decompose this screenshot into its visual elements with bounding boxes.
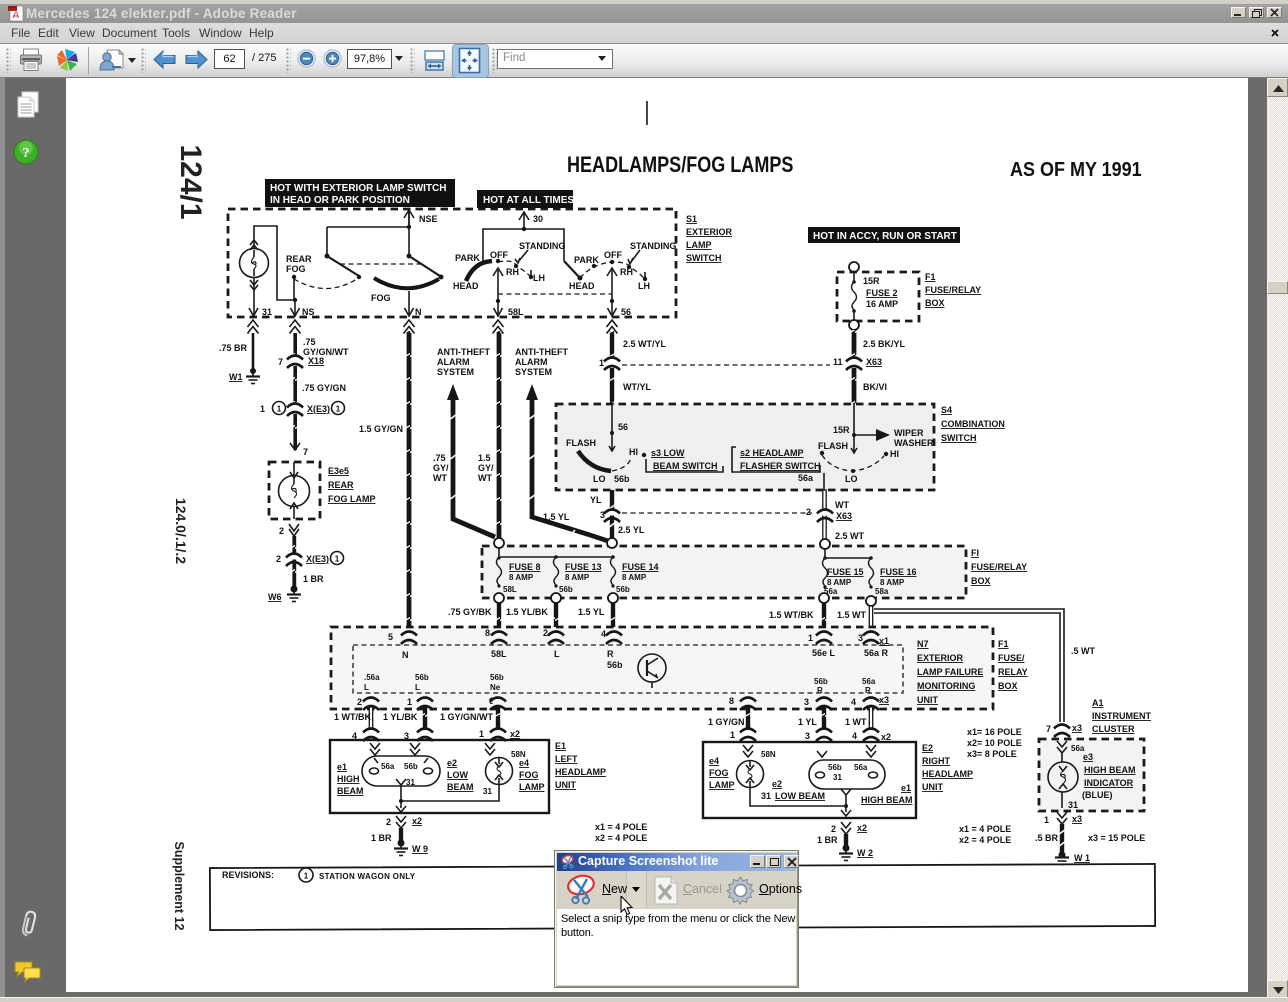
svg-text:3: 3 (805, 731, 810, 741)
E2 label (922, 743, 973, 792)
svg-text:1 WT: 1 WT (845, 717, 867, 727)
e3 label (1082, 752, 1136, 800)
svg-text:x2: x2 (510, 729, 520, 739)
svg-text:1 GY/GN/WT: 1 GY/GN/WT (440, 712, 494, 722)
E1 high/low beam stadium (362, 756, 440, 787)
connector 1 x3 (1044, 812, 1082, 825)
svg-text:1: 1 (304, 872, 309, 881)
svg-text:EXTERIOR: EXTERIOR (917, 653, 964, 663)
svg-text:A1: A1 (1092, 698, 1104, 708)
svg-text:15R: 15R (833, 425, 850, 435)
svg-text:e2: e2 (772, 779, 782, 789)
svg-text:1.5: 1.5 (478, 453, 491, 463)
connector row above E2 (730, 729, 756, 742)
fuse bus right (823, 549, 873, 560)
node NS (291, 298, 315, 317)
E1 fog lamp circle (483, 750, 526, 796)
svg-text:HIGH: HIGH (337, 774, 360, 784)
ground W1 right (1055, 852, 1090, 865)
wire BK/VI (852, 368, 887, 405)
svg-text:W6: W6 (268, 592, 282, 602)
svg-text:e2: e2 (447, 758, 457, 768)
svg-text:2: 2 (806, 507, 811, 517)
svg-text:7: 7 (303, 447, 308, 457)
FOG wiper arc (371, 278, 439, 303)
pinwheel icon (55, 48, 80, 72)
hot label box 2 (477, 190, 574, 208)
wire .75 BR (219, 333, 253, 372)
svg-text:56: 56 (618, 422, 628, 432)
svg-text:x2: x2 (857, 823, 867, 833)
S4 left: 56 node (609, 404, 628, 451)
svg-text:FOG: FOG (709, 768, 729, 778)
svg-text:LH: LH (638, 281, 650, 291)
svg-text:.75 GY/GN: .75 GY/GN (302, 383, 346, 393)
svg-text:58L: 58L (491, 649, 507, 659)
svg-text:FLASH: FLASH (818, 441, 848, 451)
circle below F1 (849, 320, 859, 330)
svg-text:.56a: .56a (364, 673, 380, 682)
fuse FUSE 16 (869, 558, 917, 596)
svg-text:1 YL/BK: 1 YL/BK (383, 712, 418, 722)
wire 1 BR to W6 (292, 536, 296, 592)
svg-text:LEFT: LEFT (555, 754, 578, 764)
window top border (0, 0, 1288, 4)
revisions box (210, 864, 1155, 930)
svg-text:e4: e4 (709, 756, 719, 766)
combination switch S4 box (556, 404, 934, 490)
svg-text:56e L: 56e L (812, 648, 836, 658)
svg-text:2.5 WT: 2.5 WT (835, 531, 865, 541)
svg-text:F1: F1 (998, 639, 1009, 649)
svg-text:FUSE 13: FUSE 13 (565, 562, 602, 572)
rotary link dashed (498, 293, 612, 295)
svg-text:31: 31 (483, 787, 492, 796)
transistor in N7 (638, 654, 666, 688)
svg-text:X(E3): X(E3) (307, 404, 330, 414)
svg-text:UNIT: UNIT (555, 780, 576, 790)
svg-text:L: L (364, 683, 369, 692)
dashed link to X63 (622, 364, 830, 366)
svg-text:MONITORING: MONITORING (917, 681, 975, 691)
E1 entry chevrons (370, 743, 495, 755)
dashed link y513 (622, 512, 812, 514)
svg-text:INDICATOR: INDICATOR (1084, 778, 1134, 788)
svg-text:2: 2 (831, 824, 836, 834)
svg-text:OFF: OFF (490, 250, 508, 260)
svg-text:WT/YL: WT/YL (623, 382, 651, 392)
A1 instrument cluster label (1092, 698, 1151, 734)
svg-text:1: 1 (336, 405, 341, 414)
svg-text:58L: 58L (503, 585, 517, 594)
svg-text:1.5 GY/GN: 1.5 GY/GN (359, 424, 403, 434)
wire .5 WT branch to A1 (874, 609, 1096, 722)
svg-text:FOG LAMP: FOG LAMP (328, 494, 376, 504)
svg-text:UNIT: UNIT (922, 782, 943, 792)
svg-text:1.5 YL: 1.5 YL (543, 512, 570, 522)
svg-text:4: 4 (601, 629, 606, 639)
svg-text:1 BR: 1 BR (817, 835, 838, 845)
svg-text:INSTRUMENT: INSTRUMENT (1092, 711, 1151, 721)
svg-text:1: 1 (730, 730, 735, 740)
E1 internal junction (396, 785, 499, 812)
svg-text:1 GY/GN: 1 GY/GN (708, 717, 745, 727)
svg-text:?: ? (23, 146, 30, 161)
svg-text:8: 8 (485, 628, 490, 638)
svg-text:FI: FI (971, 548, 979, 558)
svg-text:s3 LOW: s3 LOW (651, 448, 685, 458)
fuse FUSE 15 (823, 558, 864, 596)
wire .75 GY/GN (293, 366, 346, 402)
svg-text:7: 7 (1046, 724, 1051, 734)
svg-text:WT: WT (478, 473, 492, 483)
wire 1.5 YL/BK (506, 603, 558, 633)
svg-text:BEAM: BEAM (337, 786, 364, 796)
svg-text:E2: E2 (922, 743, 933, 753)
svg-text:R: R (817, 686, 823, 695)
connector X(E3) upper (260, 402, 345, 417)
svg-text:56a: 56a (854, 763, 868, 772)
svg-text:16 AMP: 16 AMP (866, 299, 898, 309)
anti-theft arrow 1 (433, 347, 495, 537)
svg-text:NS: NS (302, 307, 315, 317)
svg-text:2: 2 (543, 628, 548, 638)
fuse FUSE 8 (497, 556, 541, 594)
E2 fog lamp circle (737, 750, 776, 788)
svg-text:L: L (415, 683, 420, 692)
rear fog switch (286, 254, 361, 300)
connector 3 (600, 510, 645, 536)
hot label box 3 (808, 227, 960, 243)
svg-text:s2 HEADLAMP: s2 HEADLAMP (740, 448, 804, 458)
svg-text:56b: 56b (559, 585, 573, 594)
pole note left (595, 822, 647, 843)
svg-text:Ne: Ne (490, 683, 501, 692)
svg-text:FUSE/: FUSE/ (998, 653, 1025, 663)
svg-text:ANTI-THEFT: ANTI-THEFT (437, 347, 490, 357)
svg-text:e4: e4 (519, 758, 529, 768)
svg-text:UNIT: UNIT (917, 695, 938, 705)
svg-text:ALARM: ALARM (515, 357, 548, 367)
svg-text:BOX: BOX (925, 298, 945, 308)
svg-text:11: 11 (833, 357, 843, 367)
svg-text:1: 1 (479, 729, 484, 739)
pole note right (959, 824, 1011, 845)
fit width icon (424, 50, 445, 71)
svg-text:OFF: OFF (604, 250, 622, 260)
N7 label (917, 639, 983, 705)
svg-text:LAMP: LAMP (519, 782, 545, 792)
svg-text:LO: LO (593, 474, 606, 484)
svg-text:.75: .75 (303, 337, 316, 347)
svg-text:56b: 56b (607, 660, 623, 670)
svg-text:HOT WITH EXTERIOR LAMP SWITCH: HOT WITH EXTERIOR LAMP SWITCH (270, 183, 446, 194)
wires N7 to E1 (334, 707, 373, 732)
svg-text:2.5 YL: 2.5 YL (618, 525, 645, 535)
fog switch arm left (325, 227, 410, 276)
E1 label (555, 741, 606, 790)
svg-text:7: 7 (278, 357, 283, 367)
svg-text:56b: 56b (415, 673, 429, 682)
svg-text:x2: x2 (881, 732, 891, 742)
wire lamp top loop (254, 226, 295, 300)
toolbar (0, 44, 1288, 78)
svg-text:ANTI-THEFT: ANTI-THEFT (515, 347, 568, 357)
svg-text:FUSE 14: FUSE 14 (622, 562, 659, 572)
node N (405, 291, 422, 317)
svg-text:FOG: FOG (371, 293, 391, 303)
svg-text:LAMP FAILURE: LAMP FAILURE (917, 667, 983, 677)
svg-text:58a: 58a (875, 587, 889, 596)
connector row above E1 (352, 729, 379, 742)
svg-text:R: R (865, 686, 871, 695)
svg-text:CLUSTER: CLUSTER (1092, 724, 1135, 734)
S4 label (941, 405, 1005, 443)
sign/person icon (99, 48, 125, 72)
lamp E3e5 (279, 462, 310, 519)
svg-text:1: 1 (260, 404, 265, 414)
svg-text:N: N (402, 650, 409, 660)
svg-text:RH: RH (620, 267, 633, 277)
svg-text:31: 31 (1068, 800, 1078, 810)
zoom out (297, 49, 316, 68)
svg-text:STATION WAGON ONLY: STATION WAGON ONLY (319, 872, 416, 881)
wire lamp to 31 (249, 278, 272, 317)
svg-text:HI: HI (629, 447, 638, 457)
connector X(E3) lower (276, 552, 344, 567)
svg-text:FOG: FOG (519, 770, 539, 780)
connector X63 (11) (833, 357, 882, 370)
svg-text:WASHER: WASHER (894, 438, 934, 448)
svg-text:FLASH: FLASH (566, 438, 596, 448)
help icon (13, 139, 39, 165)
svg-text:SYSTEM: SYSTEM (515, 367, 552, 377)
svg-text:BEAM: BEAM (447, 782, 474, 792)
svg-text:X(E3): X(E3) (306, 554, 329, 564)
svg-text:WT: WT (835, 500, 849, 510)
svg-text:X63: X63 (836, 511, 852, 521)
svg-text:15R: 15R (863, 276, 880, 286)
svg-text:1.5 YL/BK: 1.5 YL/BK (506, 607, 548, 617)
svg-text:GY/: GY/ (433, 463, 449, 473)
svg-text:SWITCH: SWITCH (941, 433, 977, 443)
svg-text:YL: YL (590, 495, 602, 505)
svg-text:56: 56 (621, 307, 631, 317)
node NSE (404, 210, 438, 226)
svg-text:.5 BR: .5 BR (1035, 833, 1059, 843)
svg-text:HIGH BEAM: HIGH BEAM (1084, 765, 1136, 775)
svg-text:W 2: W 2 (857, 848, 873, 858)
back arrow (153, 50, 176, 69)
connector 1 (to S4) (599, 358, 620, 371)
svg-text:2: 2 (357, 697, 362, 707)
svg-text:1 BR: 1 BR (371, 833, 392, 843)
printer icon (19, 48, 43, 72)
svg-text:WT: WT (433, 473, 447, 483)
svg-text:E3e5: E3e5 (328, 466, 349, 476)
svg-text:3: 3 (804, 697, 809, 707)
svg-text:124/1: 124/1 (174, 144, 207, 219)
svg-text:x3: x3 (879, 695, 889, 705)
svg-text:LH: LH (533, 273, 545, 283)
S4 right: 15R wiper washer (833, 404, 934, 453)
comments icon (12, 959, 42, 985)
lamp symbol in S1 (240, 240, 269, 290)
svg-text:PARK: PARK (455, 253, 480, 263)
svg-text:HI: HI (890, 449, 899, 459)
svg-text:S4: S4 (941, 405, 952, 415)
trunk N 1.5 GY/GN (359, 331, 411, 637)
svg-text:SYSTEM: SYSTEM (437, 367, 474, 377)
svg-text:(BLUE): (BLUE) (1082, 790, 1113, 800)
svg-text:HEADLAMP: HEADLAMP (555, 767, 606, 777)
svg-text:8 AMP: 8 AMP (565, 573, 590, 582)
svg-text:RIGHT: RIGHT (922, 756, 951, 766)
wire 1.5 WT/BK (769, 603, 826, 633)
wire 56 / 2.5 WT/YL (610, 331, 667, 358)
svg-text:56a: 56a (798, 473, 814, 483)
N7 inner top labels (402, 648, 889, 670)
svg-text:.75: .75 (433, 453, 446, 463)
E2 entry chevrons (743, 745, 876, 757)
svg-text:Supplement 12: Supplement 12 (172, 842, 186, 931)
svg-text:BOX: BOX (971, 576, 991, 586)
S1 label (686, 214, 733, 263)
svg-text:L: L (554, 649, 560, 659)
ground W6 (268, 586, 301, 603)
svg-text:30: 30 (533, 214, 543, 224)
svg-text:8: 8 (729, 696, 734, 706)
flash arc right (798, 441, 899, 490)
menu bar (0, 23, 1288, 44)
wire YL below S4 (590, 490, 616, 542)
svg-text:1: 1 (335, 555, 340, 564)
wire to E3e5 (290, 414, 308, 457)
cancel (disabled) (651, 876, 679, 905)
N7 top pins (388, 632, 417, 645)
svg-text:124.0/.1/.2: 124.0/.1/.2 (173, 498, 189, 564)
svg-text:x1: x1 (879, 636, 889, 646)
svg-text:56a: 56a (862, 677, 876, 686)
svg-text:HIGH BEAM: HIGH BEAM (861, 795, 913, 805)
svg-text:1: 1 (407, 697, 412, 707)
svg-text:GY/: GY/ (478, 463, 494, 473)
headlamp unit E2 box (703, 742, 916, 818)
svg-text:LOW BEAM: LOW BEAM (775, 791, 825, 801)
svg-text:e3: e3 (1083, 752, 1093, 762)
svg-text:HEAD: HEAD (453, 281, 479, 291)
svg-text:x2= 10 POLE: x2= 10 POLE (967, 738, 1022, 748)
new button w/ scissors (558, 871, 627, 908)
svg-text:x3: x3 (1072, 723, 1082, 733)
svg-text:8 AMP: 8 AMP (622, 573, 647, 582)
svg-text:REVISIONS:: REVISIONS: (222, 870, 274, 880)
svg-text:x3 = 15 POLE: x3 = 15 POLE (1088, 833, 1145, 843)
svg-text:e1: e1 (901, 783, 911, 793)
F1 fuse relay label right (998, 639, 1028, 691)
s3 low beam switch label (646, 448, 723, 472)
fuse/relay box FI (482, 546, 966, 598)
connector X63 (2) (806, 507, 865, 541)
svg-text:4: 4 (852, 731, 857, 741)
svg-text:FUSE 16: FUSE 16 (880, 567, 917, 577)
node 30 (519, 212, 543, 229)
svg-text:FUSE 8: FUSE 8 (509, 562, 541, 572)
svg-text:STANDING: STANDING (519, 241, 565, 251)
svg-text:.5 WT: .5 WT (1071, 646, 1096, 656)
pages icon (15, 90, 43, 120)
svg-text:x3= 8 POLE: x3= 8 POLE (967, 749, 1017, 759)
wires N7 to E2 (708, 707, 750, 732)
svg-text:1: 1 (808, 633, 813, 643)
wire 1.5 WT (837, 606, 873, 633)
paperclip icon (17, 908, 41, 938)
svg-text:2.5 WT/YL: 2.5 WT/YL (623, 339, 667, 349)
svg-text:x2 = 4 POLE: x2 = 4 POLE (595, 833, 647, 843)
svg-text:31: 31 (833, 773, 842, 782)
svg-text:56b: 56b (814, 677, 828, 686)
svg-text:HEAD: HEAD (569, 281, 595, 291)
monitoring unit N7 outer box (331, 627, 993, 709)
svg-text:REAR: REAR (286, 254, 312, 264)
svg-text:RH: RH (506, 267, 519, 277)
svg-text:31: 31 (262, 307, 272, 317)
svg-text:REAR: REAR (328, 480, 354, 490)
fuse bus left (499, 548, 615, 559)
wire .5 BR (1035, 824, 1145, 853)
svg-text:8 AMP: 8 AMP (880, 578, 905, 587)
connector X18 (278, 356, 324, 369)
svg-text:STANDING: STANDING (630, 241, 676, 251)
pole note x1/x2/x3 (967, 727, 1022, 759)
svg-text:WIPER: WIPER (894, 428, 924, 438)
rear fog lamp E3e5 box (269, 462, 320, 519)
svg-text:LO: LO (845, 474, 858, 484)
svg-text:8 AMP: 8 AMP (827, 578, 852, 587)
svg-text:1: 1 (599, 358, 604, 368)
svg-text:X18: X18 (308, 356, 324, 366)
svg-text:x1 = 4 POLE: x1 = 4 POLE (595, 822, 647, 832)
hot label box 1 (265, 179, 455, 207)
fit page icon selected (452, 44, 489, 78)
svg-text:x1 = 4 POLE: x1 = 4 POLE (959, 824, 1011, 834)
zoom in (323, 49, 342, 68)
svg-text:HEADLAMPS/FOG LAMPS: HEADLAMPS/FOG LAMPS (567, 153, 793, 177)
58L output (493, 268, 524, 317)
flash arc left (566, 438, 646, 484)
svg-text:2: 2 (276, 554, 281, 564)
svg-text:W 9: W 9 (412, 844, 428, 854)
switch link dashed (340, 263, 421, 265)
N7 inner bottom labels (364, 673, 876, 695)
fuse FUSE 14 (611, 557, 659, 594)
svg-text:FUSE 15: FUSE 15 (827, 567, 864, 577)
registration mark (646, 101, 648, 125)
svg-text:BEAM SWITCH: BEAM SWITCH (653, 461, 718, 471)
svg-text:NSE: NSE (419, 214, 438, 224)
svg-text:FLASHER SWITCH: FLASHER SWITCH (740, 461, 821, 471)
svg-text:31: 31 (406, 778, 415, 787)
svg-text:E1: E1 (555, 741, 566, 751)
headlamp unit E1 box (330, 740, 549, 813)
A1 entry chevron (1057, 741, 1085, 753)
fuse FUSE 13 (554, 557, 602, 594)
svg-text:.75 BR: .75 BR (219, 343, 248, 353)
svg-text:R: R (607, 649, 614, 659)
anti-theft arrow 2 (478, 347, 608, 541)
svg-text:HOT IN ACCY, RUN OR START: HOT IN ACCY, RUN OR START (813, 231, 957, 242)
wire WT/YL (610, 368, 652, 404)
